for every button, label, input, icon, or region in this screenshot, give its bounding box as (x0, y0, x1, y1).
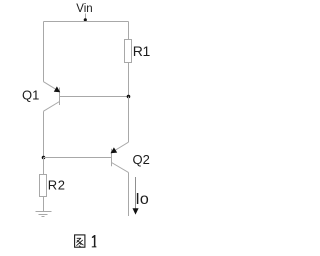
caption figure number 1 (92, 235, 97, 247)
node B junction dot (42, 156, 46, 160)
svg-text:1: 1 (143, 43, 151, 59)
wire Q2 collector down (128, 173, 130, 217)
wire node B to R2 top (43, 158, 45, 175)
wire node B to Q2 base (44, 157, 112, 159)
svg-text:Q2: Q2 (133, 152, 150, 167)
caption figure character tu (75, 235, 85, 247)
wire Q1 collector to node B (43, 111, 45, 157)
wire node A to Q2 emitter (128, 97, 130, 143)
transistor Q1 (44, 82, 61, 112)
wire rail to Q1 emitter (43, 22, 45, 82)
wire R2 bottom to ground (43, 197, 45, 212)
svg-text:2: 2 (58, 177, 65, 192)
current arrow Io (133, 177, 139, 215)
svg-text:R: R (48, 177, 57, 192)
svg-text:Vin: Vin (76, 3, 92, 15)
resistor R2 (40, 175, 47, 197)
wire Q1 base to node A (60, 96, 129, 98)
node A junction dot (127, 95, 131, 99)
wire Vin lead (85, 14, 87, 22)
svg-text:Q1: Q1 (22, 88, 39, 103)
wire R1 bottom to node A (128, 63, 130, 97)
transistor Q2 (111, 142, 129, 172)
ground (36, 212, 52, 217)
wire top rail (44, 21, 129, 23)
svg-text:R: R (133, 43, 143, 59)
resistor R1 (125, 40, 132, 63)
node Vin terminal dot (84, 18, 87, 21)
wire rail to R1 top (128, 22, 130, 40)
svg-text:Io: Io (135, 191, 148, 208)
